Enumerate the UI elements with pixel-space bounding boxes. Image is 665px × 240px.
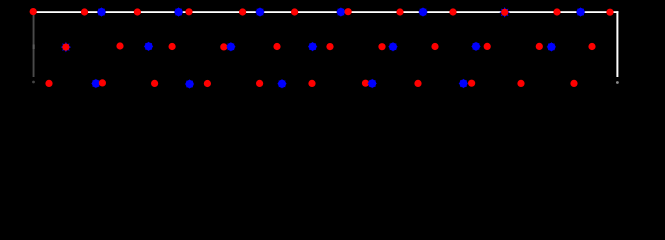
spin up (red) row3 site14 [468, 80, 475, 87]
wire: top boundary line [33, 11, 618, 13]
spin down (blue) row3 site13 [459, 79, 469, 88]
overlapped spins (blue star under red) row2 site1 (blue layer) [61, 42, 72, 53]
spin up (red) row3 site12 [414, 80, 421, 87]
spin down (blue) row2 site3 [144, 42, 154, 52]
spin up (red) row1 site4 [134, 8, 141, 15]
spin down (blue) row3 site11, overlaps site10 [367, 79, 377, 88]
wire: left time axis (gray) [33, 9, 35, 77]
spin down (blue) row1 site13 [418, 7, 428, 17]
spin down (blue) row3 site8 [277, 79, 287, 89]
tick: left axis mid highlight [33, 45, 35, 50]
spin down (blue) row3 site5 [185, 79, 195, 89]
spin up (red) row1 site16 [553, 8, 560, 15]
spin up (red) row3 site6 [204, 80, 211, 87]
spin up (red) row3 site10 [362, 80, 369, 87]
spin down (blue) row2 site8 [308, 42, 318, 52]
arrow tip: right boundary [616, 81, 619, 84]
spin up (red) row1 site1, corner node [30, 8, 37, 15]
spin up (red) row1 site11 [345, 8, 352, 15]
spin up (red) row1 site6 [185, 8, 192, 15]
spin down (blue) row2 site13 [471, 42, 481, 52]
spin up (red) row3 site1 [45, 80, 52, 87]
spin up (red) row3 site15 [517, 80, 524, 87]
spin up (red) row2 site7 [273, 43, 280, 50]
spin down (blue) row1 site5 [174, 7, 184, 17]
overlapped spins (blue star under red) row1 site15 (red layer) [501, 9, 508, 16]
spin up (red) row2 site5 [220, 43, 227, 50]
spin up (red) row3 site4 [151, 80, 158, 87]
spin down (blue) row1 site3 [97, 7, 106, 17]
spin up (red) row3 site7 [256, 80, 263, 87]
spin up (red) row2 site17 [588, 43, 595, 50]
spin up (red) row1 site12 [396, 8, 403, 15]
spin down (blue) row2 site11 [388, 42, 398, 52]
overlapped spins (blue star under red) row2 site1 (red layer) [62, 44, 69, 51]
spin up (red) row3 site3, overlaps site2 [99, 79, 106, 86]
spin down (blue) row2 site6 [226, 42, 236, 52]
spin up (red) row2 site2 [116, 42, 123, 49]
spin down (blue) row2 site16 [547, 42, 557, 52]
spin up (red) row1 site9 [291, 8, 298, 15]
spin up (red) row2 site12 [431, 43, 438, 50]
spin down (blue) row1 site17 [576, 7, 586, 17]
spin up (red) row2 site4 [169, 43, 176, 50]
spin up (red) row2 site14 [484, 43, 491, 50]
wire: right boundary line [616, 11, 618, 77]
spin up (red) row1 site7 [239, 8, 246, 15]
spin up (red) row1 site14 [449, 8, 456, 15]
arrow tip: left time axis [32, 81, 35, 84]
spin down (blue) row1 site8 [255, 7, 265, 17]
spin down (blue) row1 site10 [336, 7, 346, 17]
spin up (red) row1 site18 [606, 9, 613, 16]
spin up (red) row2 site9 [326, 43, 333, 50]
spin up (red) row3 site16 [570, 80, 577, 87]
spin up (red) row1 site2 [81, 8, 88, 15]
spin up (red) row2 site10 [378, 43, 385, 50]
spin down (blue) row3 site2 [91, 79, 101, 88]
overlapped spins (blue star under red) row1 site15 (blue layer) [499, 7, 510, 18]
spin up (red) row2 site15 [536, 43, 543, 50]
spin up (red) row3 site9 [308, 80, 315, 87]
